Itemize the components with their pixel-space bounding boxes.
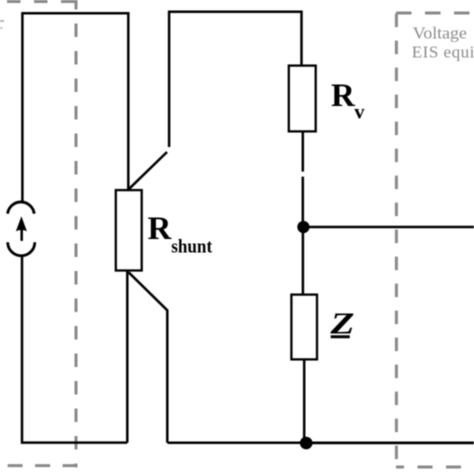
- svg-text:v: v: [354, 102, 365, 124]
- svg-text:R: R: [331, 78, 356, 114]
- svg-text:R: R: [148, 211, 173, 247]
- svg-text:Voltage: Voltage: [413, 24, 467, 43]
- svg-text:shunt: shunt: [171, 237, 213, 257]
- svg-text:EIS equipment: EIS equipment: [412, 42, 474, 61]
